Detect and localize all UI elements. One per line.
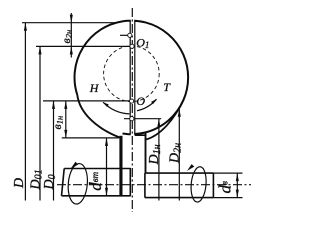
left shaft rotation ellipse [67, 163, 89, 205]
dimension line v1n (between O level and flange line) [65, 101, 67, 138]
node O (bottom of dashed circle) [130, 99, 134, 103]
pump casing outer arc (bottom left) [77, 95, 120, 138]
extension line at O level [43, 100, 129, 102]
vertical axis (dash-dot) [131, 8, 133, 212]
arrow D1n top [157, 119, 160, 127]
left shaft rotation arrowhead [71, 162, 79, 169]
dimension line D2n [178, 109, 180, 201]
turbine flat bottom near axis [135, 134, 147, 136]
arrow d_v top [236, 173, 239, 181]
turbine rotation arrowhead [151, 99, 157, 104]
node O1 (top of dashed circle) [130, 44, 134, 48]
arrow D01 top [38, 46, 41, 54]
dimension line d_vt [106, 138, 108, 196]
arrow D2n top [178, 109, 181, 117]
right shaft rotation ellipse [190, 166, 208, 203]
extension line at circle top (level of D) [22, 22, 116, 24]
dimension line D [24, 23, 26, 201]
arrow v2n lower (points up to y=46.4) [70, 46, 73, 54]
node C1 (on pump shell) [128, 33, 132, 37]
pump rotation arrowhead [103, 102, 109, 107]
pump hub wall (thick) [119, 136, 122, 196]
svg-text:D: D [12, 178, 27, 189]
turbine shell wall (right of gap) [134, 21, 136, 135]
left shaft (pump shaft) [62, 168, 131, 197]
right shaft (turbine shaft) [145, 173, 214, 198]
dashed circle (middle streamline) [104, 46, 160, 102]
arrow v2n upper (points down to y=22.7) [70, 15, 73, 23]
arrow D0 top [52, 101, 55, 109]
turbine rotation arrow arc [137, 99, 157, 111]
gap (parting plane) white strip [131, 15, 135, 139]
dimension line D0 [53, 101, 55, 201]
arrow D top [24, 23, 27, 31]
dimension line d_v [236, 173, 238, 198]
tick at node C1 [120, 34, 128, 36]
dimension line v2n (between D level and O1 level, arrows outside) [70, 13, 72, 58]
arrow v1n bottom [64, 130, 67, 138]
node C4 (D1n level) [130, 117, 134, 121]
horizontal shaft axis (dash-dot) [57, 184, 251, 186]
d_v extension lines from right shaft corners [213, 173, 242, 198]
arrow d_vt bottom [105, 188, 108, 196]
turbine hub wall [145, 132, 147, 173]
dimension line D1n [158, 119, 160, 201]
pump rotation arrow arc [103, 102, 129, 114]
arrow v1n top [64, 101, 67, 109]
right shaft rotation arrowhead [187, 164, 194, 171]
outer circle (working cavity, diameter D) [75, 21, 189, 135]
arrow d_vt top [105, 138, 108, 146]
pump casing flange line (hub diameter reference) [62, 137, 119, 139]
arrow d_v bottom [236, 190, 239, 198]
pump shell wall (left of gap) [129, 21, 131, 134]
extension line at node C4 level (D1n) [124, 118, 161, 120]
dimension line D01 [39, 46, 41, 200]
svg-text:О: О [136, 94, 145, 108]
extension line at O1 level [36, 45, 130, 47]
pump casing outer arc (bottom right) [146, 99, 184, 139]
svg-text:Н: Н [89, 81, 100, 95]
